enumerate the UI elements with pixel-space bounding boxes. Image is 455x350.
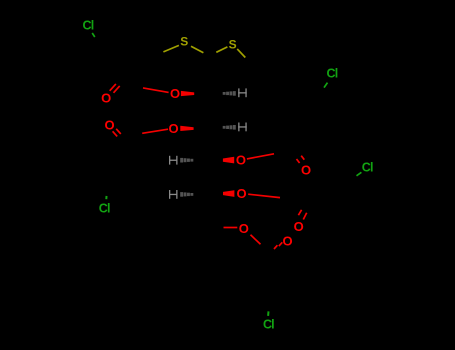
chlorine Cl4 (ester C ring para) (362, 161, 373, 175)
chlorine Cl1 (top-left ring para) (83, 19, 94, 33)
oxygen O3c carbonyl of ester C (301, 162, 311, 177)
oxygen O3 on C3 (168, 121, 178, 136)
svg-text:O: O (170, 86, 180, 101)
wedge bond C4-O4 (bold, red half) (223, 157, 234, 164)
wire Cl4 bond stub (357, 172, 362, 176)
oxygen O5 on C5 (236, 186, 246, 201)
wire Cl3 bond stub (324, 83, 328, 88)
wedge bond C5-O5 (bold, red half) (223, 190, 234, 197)
svg-text:O: O (104, 118, 114, 133)
sulfur S2 (229, 37, 237, 51)
svg-text:O: O (294, 219, 304, 234)
oxygen O1 carbonyl of ester A (101, 90, 111, 105)
wire Cl5 bond stub (267, 311, 269, 316)
wedge bond C3-O3 (bold, red half) (180, 126, 193, 131)
hash wedge C5-H (gray) (180, 192, 193, 197)
svg-text:Cl: Cl (99, 202, 110, 216)
svg-text:Cl: Cl (362, 161, 373, 175)
hydrogen H on C4 (169, 156, 178, 165)
hash wedge C4-H (gray) (180, 158, 193, 163)
wire C=O double bond ester B (113, 129, 121, 137)
wire ester C O4-C(=O) bond (247, 154, 274, 159)
svg-text:S: S (180, 35, 188, 49)
wire S1-C1 bond half (191, 46, 203, 53)
wire C=O double bond ester A (110, 84, 120, 93)
oxygen O6 on C6 (239, 221, 249, 236)
wire C=O double bond ester D (298, 210, 306, 220)
oxygen O5c carbonyl of ester E (283, 233, 293, 248)
oxygen O2c carbonyl of ester B (104, 118, 114, 133)
svg-text:O: O (236, 153, 246, 168)
svg-text:Cl: Cl (327, 67, 338, 81)
wire S1-CH3 bond half (163, 45, 179, 52)
svg-text:O: O (239, 221, 249, 236)
svg-text:O: O (236, 186, 246, 201)
svg-text:Cl: Cl (83, 19, 94, 33)
wire ester E O6-C(=O) bond (251, 235, 261, 245)
svg-text:O: O (283, 233, 293, 248)
chlorine Cl3 (top-right ring para) (327, 67, 338, 81)
wire S2-CH2 bond half (237, 49, 245, 58)
hash wedge C3-H (gray) (223, 125, 236, 130)
wire Cl1 bond stub (92, 33, 95, 37)
chlorine Cl5 (bottom ring para, ester E) (263, 318, 274, 332)
wire ester A O2-C(=O) bond (143, 88, 169, 93)
svg-text:Cl: Cl (263, 318, 274, 332)
oxygen O4c carbonyl of ester D (294, 219, 304, 234)
svg-text:O: O (168, 121, 178, 136)
sulfur S1 (180, 35, 188, 49)
svg-text:S: S (229, 37, 237, 51)
wire ester D O5-C(=O) bond (248, 194, 280, 197)
hydrogen H on C2 (238, 88, 247, 97)
wire O6-C6 bond half (224, 227, 238, 229)
wire S2-C1 bond half (216, 47, 227, 52)
wire C=O double bond ester C (297, 156, 305, 163)
chlorine Cl2 (left ring para, ester B) (99, 202, 110, 216)
hydrogen H on C5 (169, 190, 178, 199)
wedge bond C2-O2 (bold, red half) (181, 91, 194, 96)
svg-text:O: O (101, 90, 111, 105)
wire Cl2 bond stub (105, 196, 107, 199)
oxygen O2 on C2 (170, 86, 180, 101)
oxygen O4 on C4 (236, 153, 246, 168)
wire ester B O3-C(=O) bond (142, 129, 168, 133)
hash wedge C2-H (gray) (223, 91, 236, 96)
svg-text:O: O (301, 162, 311, 177)
hydrogen H on C3 (238, 123, 247, 132)
wire C=O double bond ester E (274, 242, 282, 249)
